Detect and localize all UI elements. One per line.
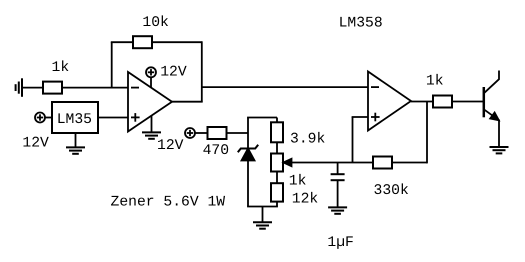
wire feedback top right	[152, 41, 202, 43]
resistor R3 470	[208, 127, 227, 139]
wire supply to R3	[195, 132, 208, 134]
resistor R2 10k	[133, 36, 152, 48]
wire zener column top	[247, 118, 249, 149]
svg-text:LM358: LM358	[339, 16, 383, 32]
capacitor C1 top stem	[337, 163, 339, 175]
transistor Q1 base bar	[483, 87, 486, 117]
ground U1	[142, 116, 161, 139]
wire feedback left vertical	[111, 42, 113, 87]
svg-text:1k: 1k	[289, 173, 307, 189]
svg-text:12V: 12V	[160, 64, 187, 80]
op-amp U1 triangle	[128, 72, 172, 132]
ground Q1	[490, 147, 509, 153]
wire LM35 supply	[45, 117, 52, 119]
wire R3 to zener node	[227, 132, 249, 134]
wire R6 to bottom rail	[276, 202, 278, 207]
ground C1	[328, 207, 347, 213]
zener diode D1 5.6V	[238, 145, 258, 161]
U1 minus sign	[131, 87, 139, 89]
wire R1 to U1 inverting input	[62, 87, 128, 89]
svg-text:Zener 5.6V 1W: Zener 5.6V 1W	[111, 195, 226, 211]
svg-text:10k: 10k	[142, 15, 169, 31]
wire GND1 to R1	[22, 87, 43, 89]
sensor LM35 box	[52, 102, 98, 133]
wire into U2 plus input	[352, 116, 368, 118]
capacitor C1 bottom stem	[337, 180, 339, 207]
capacitor C1 plates	[331, 174, 345, 180]
svg-text:330k: 330k	[374, 183, 409, 199]
ground GND1 (input earth, rotated)	[16, 78, 22, 97]
wire feedback right vertical	[201, 41, 203, 101]
wire top rail to R4	[276, 118, 278, 123]
svg-text:470: 470	[203, 143, 229, 159]
wire U2 output to R7	[411, 101, 433, 103]
U2 minus sign	[371, 86, 379, 88]
wire LM35 output to U1 non-inverting input	[98, 117, 128, 119]
resistor R8 330k	[373, 157, 392, 169]
svg-text:12V: 12V	[22, 135, 49, 151]
power +12V U1 circle-plus	[146, 67, 156, 77]
power +12V LM35 circle-plus	[35, 113, 45, 123]
wire node up to U2 plus input	[352, 117, 354, 163]
wire zener column bottom	[247, 161, 249, 207]
U2 plus sign	[371, 113, 380, 122]
wire feedback up to U2 output	[426, 102, 428, 164]
resistor R4 3.9k	[271, 122, 283, 142]
wire R5 to R6	[276, 172, 278, 184]
resistor R5 1k (trimmer)	[271, 154, 283, 172]
svg-text:3.9k: 3.9k	[290, 132, 325, 148]
svg-text:12k: 12k	[292, 191, 319, 207]
wire U1 power stem	[150, 77, 152, 87]
resistor R1 1k	[43, 82, 62, 94]
ground divider	[253, 207, 272, 229]
wire U1 output to U2 inverting input	[202, 86, 368, 88]
wire divider bottom rail	[247, 206, 278, 208]
svg-text:1µF: 1µF	[327, 235, 353, 251]
wire R7 to Q1 base	[452, 101, 484, 103]
wire wiper to U2 non-inverting node	[291, 162, 427, 164]
svg-text:12V: 12V	[157, 138, 184, 154]
svg-text:LM35: LM35	[57, 112, 92, 128]
wire divider top rail	[247, 117, 277, 119]
svg-text:1k: 1k	[52, 60, 70, 76]
resistor R6 12k	[271, 183, 283, 201]
power +12V reference circle-plus	[185, 128, 195, 138]
op-amp U2 triangle	[368, 72, 411, 131]
resistor R7 1k	[433, 96, 452, 108]
trimmer wiper arrow	[284, 159, 292, 166]
wire U1 output	[172, 101, 203, 103]
ground LM35	[66, 133, 85, 154]
transistor Q1 emitter with arrow	[484, 109, 499, 120]
wire R4 to R5	[276, 142, 278, 153]
wire Q1 emitter down	[498, 120, 500, 148]
svg-text:1k: 1k	[426, 74, 444, 90]
transistor Q1 collector	[484, 71, 499, 94]
wire feedback top left	[111, 41, 133, 43]
U1 plus sign	[131, 113, 140, 122]
